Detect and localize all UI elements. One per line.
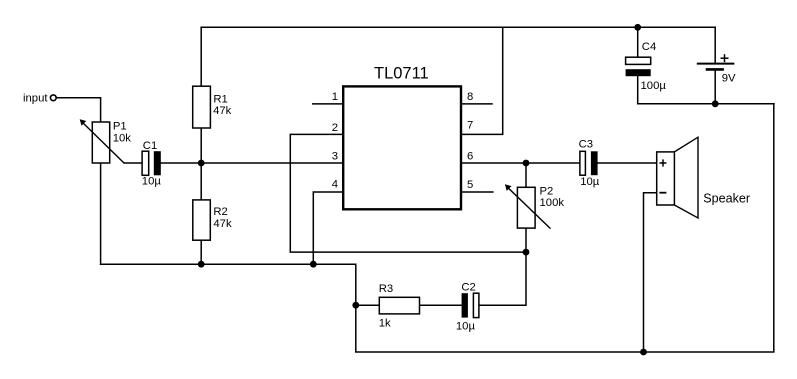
svg-text:R1: R1 (213, 93, 227, 105)
svg-text:100µ: 100µ (641, 80, 667, 92)
svg-text:7: 7 (467, 119, 473, 131)
svg-text:1: 1 (332, 91, 338, 103)
svg-text:2: 2 (332, 122, 338, 134)
svg-text:10µ: 10µ (456, 321, 476, 333)
svg-text:Speaker: Speaker (703, 192, 750, 206)
svg-text:C3: C3 (579, 139, 593, 151)
svg-text:P1: P1 (113, 121, 127, 133)
svg-text:3: 3 (332, 150, 338, 162)
svg-text:6: 6 (467, 151, 473, 163)
svg-text:C4: C4 (642, 41, 656, 53)
svg-text:1k: 1k (379, 318, 391, 330)
svg-text:TL0711: TL0711 (374, 64, 429, 82)
svg-text:5: 5 (467, 179, 473, 191)
svg-text:C1: C1 (143, 140, 157, 152)
svg-text:10µ: 10µ (580, 176, 600, 188)
svg-text:R3: R3 (379, 283, 393, 295)
svg-text:47k: 47k (213, 105, 232, 117)
svg-text:input: input (23, 92, 48, 104)
svg-text:9V: 9V (722, 72, 736, 84)
svg-text:47k: 47k (213, 218, 232, 230)
svg-text:C2: C2 (461, 282, 475, 294)
svg-text:10µ: 10µ (142, 176, 162, 188)
svg-text:4: 4 (332, 179, 338, 191)
svg-text:10k: 10k (113, 133, 132, 145)
svg-text:100k: 100k (540, 197, 565, 209)
svg-text:R2: R2 (213, 206, 227, 218)
svg-text:8: 8 (467, 91, 473, 103)
